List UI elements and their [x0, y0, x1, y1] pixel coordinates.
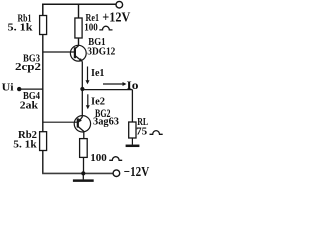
- transistor BG2 circle: [74, 116, 90, 132]
- wire left branch bottom segment: [42, 151, 44, 174]
- svg-text:Ie1: Ie1: [91, 67, 105, 79]
- wire BG2 emitter from junction: [81, 89, 83, 117]
- transistor BG1 circle: [70, 45, 86, 61]
- wire top +12V rail: [42, 3, 116, 5]
- label RL ohm symbol: [150, 131, 163, 135]
- current arrow Ie2: [87, 94, 89, 106]
- transistor BG1 base bar: [74, 47, 76, 58]
- wire BG1 base: [43, 51, 75, 53]
- svg-text:5. 1k: 5. 1k: [13, 139, 37, 150]
- wire bottom -12V rail: [42, 172, 113, 174]
- svg-text:Ie2: Ie2: [91, 96, 105, 108]
- ground bottom: [73, 179, 94, 182]
- terminal -12V: [113, 170, 120, 177]
- wire BG2 collector down: [83, 131, 85, 139]
- label Re1 ohm symbol: [99, 26, 112, 30]
- resistor RL: [129, 122, 136, 138]
- wire Ui input: [19, 88, 43, 90]
- wire BG1 emitter down: [81, 61, 83, 89]
- wire Re1 branch top: [78, 4, 80, 18]
- svg-text:Ui: Ui: [2, 82, 14, 94]
- svg-text:3DG12: 3DG12: [87, 46, 115, 57]
- svg-text:3ag63: 3ag63: [93, 117, 119, 128]
- transistor BG1 collector diagonal: [75, 46, 78, 49]
- wire output down to RL: [131, 90, 133, 122]
- resistor Rb2: [40, 132, 47, 151]
- wire output horizontal: [82, 89, 132, 91]
- wire BG2 base: [43, 121, 78, 123]
- svg-text:+12V: +12V: [102, 11, 130, 26]
- terminal +12V: [116, 1, 123, 8]
- wire left branch top segment: [42, 4, 44, 16]
- wire 100 resistor to bottom rail: [83, 157, 85, 173]
- transistor BG1 emitter diagonal with NPN arrow: [75, 56, 81, 61]
- transistor BG2 emitter diagonal with PNP arrow: [78, 117, 82, 122]
- resistor Re1: [75, 18, 82, 38]
- svg-text:2cp2: 2cp2: [15, 62, 41, 73]
- node bottom rail junction dot: [81, 171, 85, 175]
- svg-text:5. 1k: 5. 1k: [8, 22, 33, 33]
- wire Re1 to BG1 collector: [78, 38, 80, 46]
- label 100 ohm symbol: [109, 157, 122, 161]
- svg-text:2ak: 2ak: [20, 100, 38, 111]
- svg-text:100: 100: [84, 22, 98, 33]
- node emitter junction dot: [80, 87, 84, 91]
- svg-text:−12V: −12V: [124, 165, 149, 180]
- resistor Rb1: [40, 16, 47, 35]
- svg-text:75: 75: [136, 126, 147, 137]
- wire RL to ground: [131, 138, 133, 145]
- transistor BG2 base bar: [77, 118, 79, 127]
- svg-text:100: 100: [90, 153, 107, 164]
- wire left branch middle segment: [42, 35, 44, 132]
- current arrow Ie1: [87, 67, 89, 81]
- node Ui input dot: [17, 87, 21, 91]
- ground RL: [126, 145, 140, 148]
- wire ground stub: [82, 173, 84, 179]
- resistor 100 bottom: [80, 139, 88, 158]
- current arrow Io: [103, 83, 124, 85]
- transistor BG2 collector diagonal: [78, 127, 84, 132]
